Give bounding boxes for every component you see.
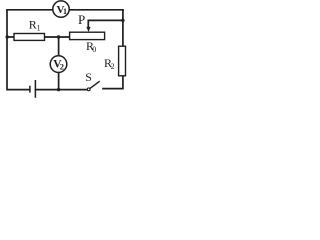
svg-text:1: 1	[63, 7, 67, 16]
svg-text:P: P	[78, 12, 85, 27]
svg-text:1: 1	[37, 24, 41, 33]
svg-text:0: 0	[92, 45, 96, 54]
svg-text:S: S	[85, 70, 92, 84]
svg-text:2: 2	[60, 61, 64, 71]
svg-text:2: 2	[111, 62, 115, 71]
